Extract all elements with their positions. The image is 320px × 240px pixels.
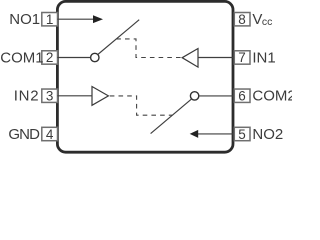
- svg-text:cc: cc: [262, 16, 273, 28]
- arrow NO1 contact: [93, 15, 103, 23]
- wire NO1 to switch contact: [57, 18, 94, 20]
- dashed control line SW1 from IN1: [116, 39, 182, 58]
- buffer U1B for IN2: [92, 87, 108, 106]
- svg-text:4: 4: [46, 127, 54, 142]
- svg-text:NO2: NO2: [252, 126, 283, 143]
- dashed control line SW2 from IN2: [110, 96, 172, 115]
- svg-text:6: 6: [238, 88, 246, 103]
- pin 5 box: [234, 127, 250, 142]
- switch SW1 arm: [98, 20, 139, 55]
- svg-text:7: 7: [238, 50, 246, 65]
- switch SW2 arm: [151, 99, 192, 134]
- pin label Vcc: [252, 11, 272, 28]
- svg-text:COM2: COM2: [252, 88, 292, 105]
- wire IN2 to buffer: [57, 95, 92, 97]
- pin 2 box: [42, 50, 58, 65]
- IC body U1: [57, 1, 233, 152]
- pin 1 box: [42, 12, 58, 27]
- svg-text:5: 5: [238, 127, 246, 142]
- pin 4 box: [42, 127, 58, 142]
- wire COM2 to pole: [199, 95, 233, 97]
- svg-text:2: 2: [46, 50, 54, 65]
- inverter U1A for IN1: [182, 49, 198, 68]
- svg-text:GND: GND: [8, 126, 40, 143]
- pin 3 box: [42, 88, 58, 103]
- switch SW1 pole circle: [91, 53, 99, 61]
- svg-text:IN2: IN2: [14, 88, 39, 105]
- svg-text:IN1: IN1: [252, 49, 275, 66]
- svg-text:3: 3: [46, 88, 54, 103]
- wire NO2 to switch contact: [198, 133, 233, 135]
- pin 6 box: [234, 88, 250, 103]
- svg-text:8: 8: [238, 12, 246, 27]
- pin 8 box: [234, 12, 250, 27]
- svg-text:NO1: NO1: [9, 11, 40, 28]
- svg-text:COM1: COM1: [0, 49, 43, 66]
- svg-text:1: 1: [46, 12, 54, 27]
- switch SW2 pole circle: [190, 92, 198, 100]
- arrow NO2 contact: [190, 130, 199, 138]
- pin 7 box: [234, 50, 250, 65]
- wire IN1 to inverter: [198, 57, 233, 59]
- wire COM1 to pole: [57, 57, 90, 59]
